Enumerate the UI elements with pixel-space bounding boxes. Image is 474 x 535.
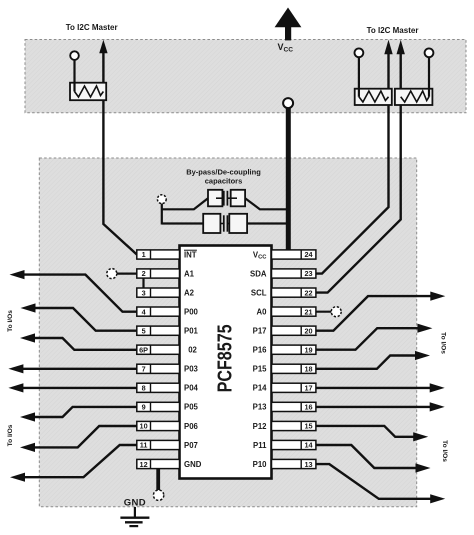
svg-text:P14: P14 [253,384,268,393]
pin 13 box (right) [272,459,316,468]
wire A1-A2 tie [142,278,144,288]
svg-text:P11: P11 [253,441,267,450]
svg-text:By-pass/De-coupling: By-pass/De-coupling [186,168,261,177]
wire P03 to I/O (arrow left) [8,364,136,373]
svg-text:11: 11 [140,441,148,450]
ground symbol [120,507,149,526]
pin 21 box (right) [272,307,316,316]
svg-text:To I/Os: To I/Os [7,310,14,332]
wire lower capacitor C2 leads [162,222,203,224]
pin 4 box (left) [137,307,180,316]
wire P16 to I/O (arrow right) [315,324,433,350]
pin 1 box (left) [137,250,180,259]
pin 2 box (left) [137,269,180,278]
svg-text:24: 24 [304,250,313,259]
resistor R3 (SCL pull-up) [395,89,433,105]
wire P06 to I/O (arrow left) [20,426,137,452]
svg-text:A2: A2 [184,288,195,297]
svg-text:GND: GND [184,460,202,469]
wire P14 to I/O (arrow right) [315,383,445,392]
svg-text:To I/Os: To I/Os [441,440,448,462]
wire P02 to I/O (arrow left) [20,333,137,349]
svg-text:19: 19 [304,345,312,354]
pin 5 box (left) [137,326,180,335]
pin label INT (with overline) [184,250,197,259]
pin 9 box (left) [137,402,180,411]
node terminal circle of R3 [425,48,434,57]
resistor R1 (INT pull-up) [70,83,106,101]
pin 22 box (right) [272,288,316,297]
svg-text:To I2C Master: To I2C Master [367,26,419,35]
host board main region [39,158,416,507]
svg-text:6P: 6P [139,345,148,354]
wire R1 terminal stub [73,57,75,92]
svg-text:P07: P07 [184,441,198,450]
svg-text:8: 8 [142,384,146,393]
pin 14 box (right) [272,440,316,449]
capacitor C2 (lower bypass) [203,214,247,233]
svg-text:P04: P04 [184,384,199,393]
svg-text:21: 21 [304,307,312,316]
wire capacitor common stub [161,202,163,225]
wire upper capacitor C1 leads [162,198,208,209]
pin 15 box (right) [272,421,316,430]
svg-text:7: 7 [142,365,146,374]
node A1 address tie circle (dashed) [116,273,137,275]
svg-text:P16: P16 [253,346,268,355]
svg-text:capacitors: capacitors [205,177,243,186]
svg-text:To I2C Master: To I2C Master [66,23,118,32]
power symbol VCC (arrow up) [275,8,302,41]
svg-text:P15: P15 [253,365,268,374]
svg-text:P01: P01 [184,327,199,336]
wire SCL to I2C master (arrow up) [315,40,405,293]
pin 12 box (left) [137,459,180,468]
svg-text:5: 5 [142,326,146,335]
wire P10 to I/O (arrow right) [315,464,445,503]
node A0 address circle (dashed) [315,311,332,313]
svg-text:15: 15 [304,422,312,431]
pin 6P box (left) [137,345,180,354]
wire P07 to I/O (arrow left) [10,445,137,482]
pin 20 box (right) [272,326,316,335]
pin 19 box (right) [272,345,316,354]
svg-text:PCF8575: PCF8575 [214,324,237,392]
svg-text:P12: P12 [253,422,268,431]
svg-text:P03: P03 [184,365,199,374]
svg-text:P06: P06 [184,422,199,431]
svg-text:SCL: SCL [251,288,267,297]
node terminal circle of R2 [355,48,364,57]
svg-text:20: 20 [304,326,312,335]
svg-text:GND: GND [124,498,146,509]
node capacitor terminal (dashed circle) [157,195,166,204]
svg-text:A0: A0 [257,307,268,316]
svg-text:23: 23 [304,269,312,278]
node terminal circle of R1 [70,51,79,60]
svg-text:10: 10 [140,422,148,431]
svg-text:02: 02 [188,346,197,355]
wire P00 to I/O (arrow left) [10,270,137,312]
pin 8 box (left) [137,383,180,392]
pin 10 box (left) [137,421,180,430]
svg-text:SDA: SDA [250,269,267,278]
wire R3 terminal stub [428,54,430,97]
svg-text:1: 1 [142,250,146,259]
svg-text:P13: P13 [253,403,268,412]
pin 11 box (left) [137,440,180,449]
resistor R2 (SDA pull-up) [355,89,392,105]
wire P13 to I/O (arrow right) [315,402,445,411]
wire P04 to I/O (arrow left) [8,383,136,392]
svg-text:14: 14 [304,441,313,450]
svg-text:INT: INT [184,250,197,259]
svg-text:22: 22 [304,288,312,297]
pin 24 box (right) [272,250,316,259]
svg-text:To I/Os: To I/Os [7,424,14,446]
svg-text:P17: P17 [253,327,267,336]
pin 7 box (left) [137,364,180,373]
svg-text:To I/Os: To I/Os [440,332,447,354]
capacitor C1 (upper bypass) [208,190,245,207]
svg-text:12: 12 [140,460,148,469]
svg-text:A1: A1 [184,269,195,278]
wire VCC vertical feed to pin 24 [286,104,291,251]
op-amp/IC U1 PCF8575 body [180,246,272,479]
wire SDA to I2C master (arrow up) [315,40,393,274]
svg-text:13: 13 [304,460,312,469]
host board top rail region [25,40,466,113]
svg-text:17: 17 [304,384,312,393]
pin 16 box (right) [272,402,316,411]
wire P01 to I/O (arrow left) [21,303,137,330]
svg-text:16: 16 [304,403,312,412]
svg-text:9: 9 [142,403,146,412]
svg-text:P00: P00 [184,307,199,316]
node VCC terminal circle [283,98,293,108]
node GND terminal (dashed circle) [153,490,163,500]
pin 18 box (right) [272,364,316,373]
wire P17 to I/O (arrow right) [315,292,445,331]
wire INT line to I2C master (arrow up) [99,40,137,255]
wire P11 to I/O (arrow right) [315,445,431,473]
wire P15 to I/O (arrow right) [315,351,430,369]
pin 23 box (right) [272,269,316,278]
svg-text:3: 3 [142,288,146,297]
svg-text:P10: P10 [253,460,268,469]
pin 3 box (left) [137,288,180,297]
wire GND pin to board edge [156,468,160,491]
wire P12 to I/O (arrow right) [315,426,428,442]
pin 17 box (right) [272,383,316,392]
wire R2 terminal stub [358,54,360,97]
svg-text:18: 18 [304,365,312,374]
svg-text:P05: P05 [184,403,199,412]
wire P05 to I/O (arrow left) [20,407,137,422]
svg-text:2: 2 [142,269,146,278]
